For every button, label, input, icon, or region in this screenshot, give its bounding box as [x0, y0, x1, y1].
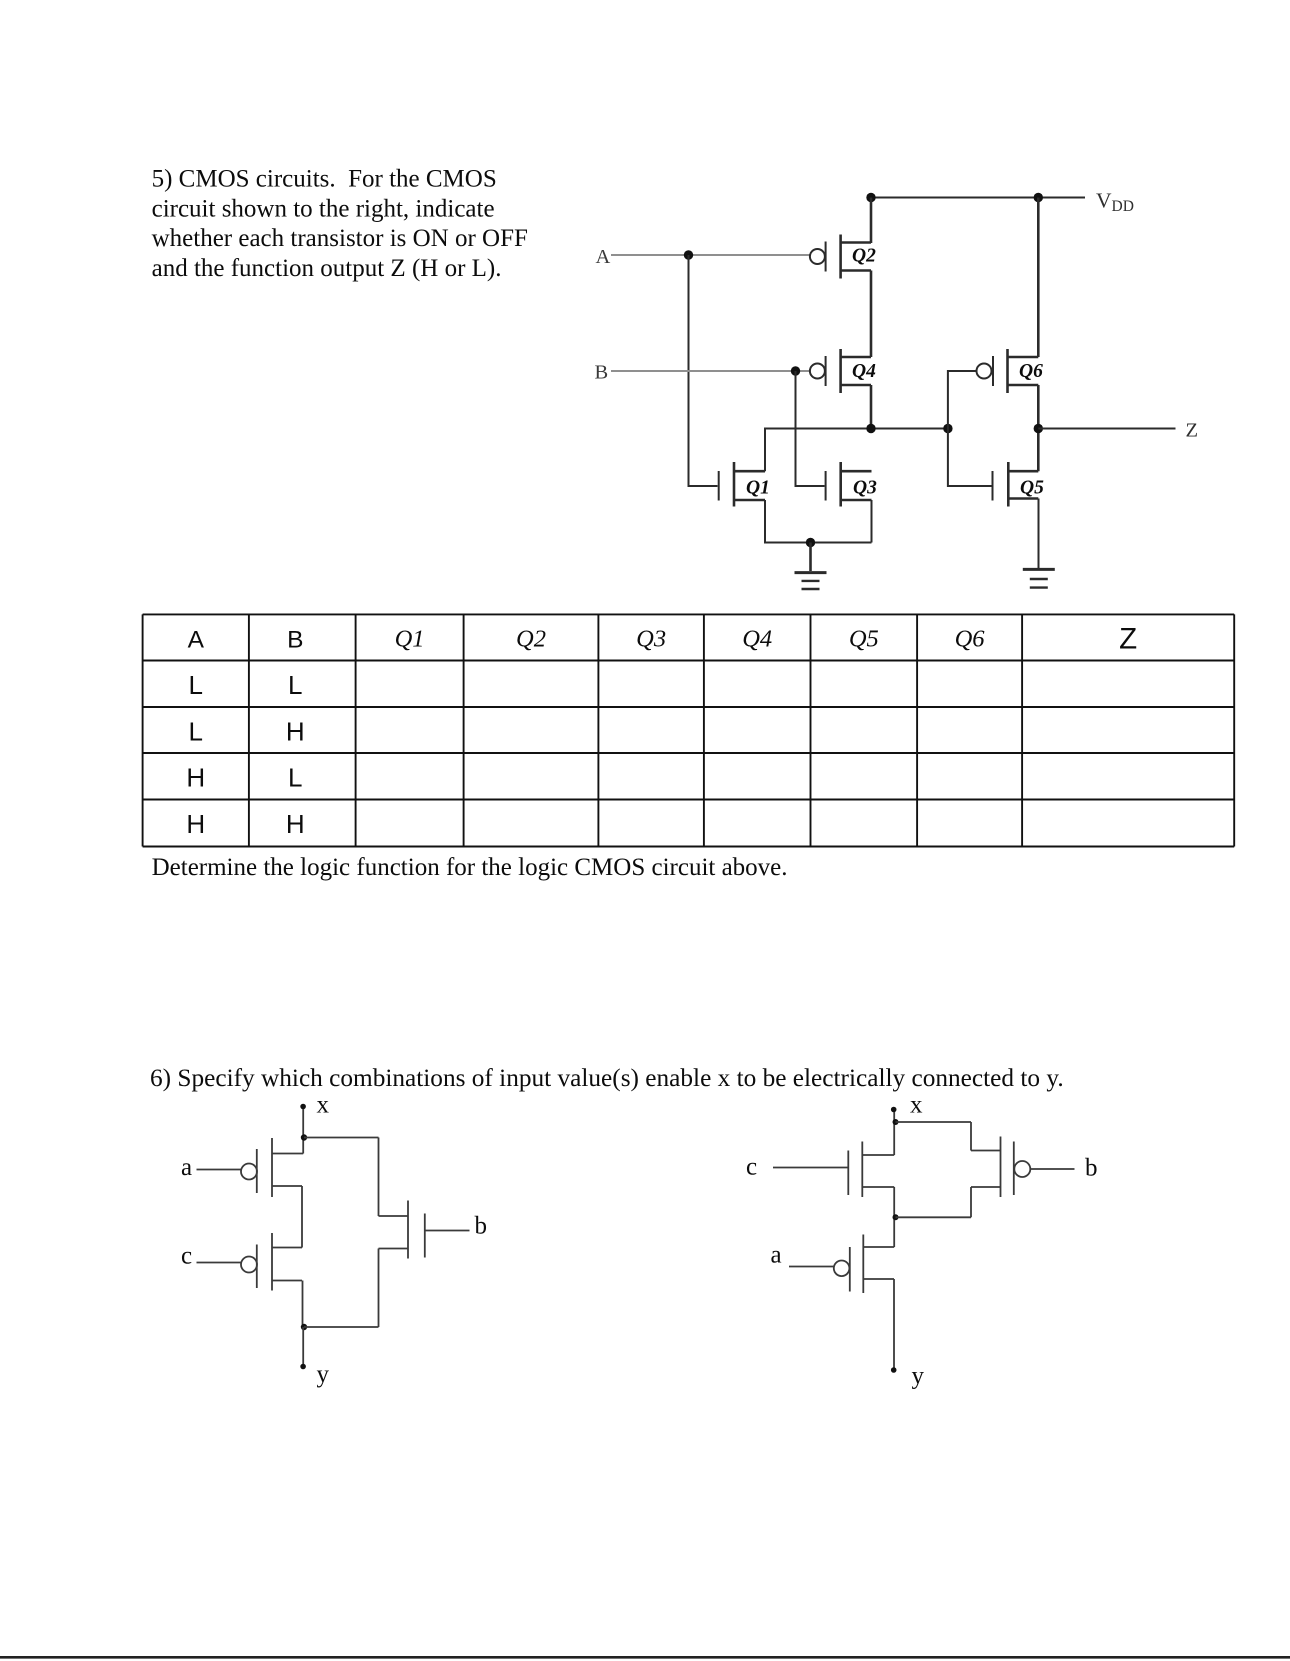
svg-text:B: B: [595, 361, 609, 383]
output node dot: [866, 424, 875, 433]
wire B to Q3 gate: [796, 371, 825, 486]
left circuit: node y terminal dot: [300, 1364, 306, 1370]
left circuit: transistor c (PMOS): [197, 1233, 303, 1291]
truth table grid: [143, 614, 1235, 846]
wire node to Q5 gate: [948, 429, 992, 487]
svg-text:Determine the logic function f: Determine the logic function for the log…: [152, 854, 788, 881]
svg-text:H: H: [286, 716, 305, 746]
left circuit: wire c source down: [302, 1281, 304, 1328]
svg-text:c: c: [746, 1154, 757, 1181]
svg-text:Z: Z: [1119, 623, 1137, 656]
left circuit: right branch upper wire: [378, 1138, 380, 1217]
svg-text:whether each transistor is ON: whether each transistor is ON or OFF: [152, 225, 528, 252]
svg-text:x: x: [910, 1092, 923, 1119]
left circuit: right branch lower wire: [378, 1249, 380, 1328]
right circuit: wire to y: [893, 1279, 895, 1370]
left circuit: transistor b (NMOS): [379, 1201, 470, 1259]
svg-text:Q5: Q5: [1020, 478, 1044, 499]
left circuit: transistor a (PMOS): [197, 1138, 304, 1197]
wire Q3 source down: [871, 500, 873, 543]
svg-text:L: L: [189, 716, 203, 746]
wire Q4 drain to output node: [870, 385, 873, 429]
wire node to Q6 gate: [948, 371, 977, 429]
node A junction dot: [684, 250, 693, 259]
VDD junction dot right: [1034, 193, 1043, 202]
ground symbol right: [1023, 569, 1055, 587]
svg-text:VDD: VDD: [1096, 189, 1134, 216]
right circuit: mid wire to right branch: [896, 1216, 972, 1218]
left circuit: wire between transistor a and c: [301, 1186, 303, 1248]
wire input B: [611, 370, 810, 372]
wire Q2 drain to Q4 source: [870, 271, 873, 358]
VDD junction dot left: [866, 193, 875, 202]
svg-text:A: A: [188, 626, 205, 653]
wire VDD to Q2 source: [870, 198, 873, 244]
right circuit: top wire to right branch: [896, 1121, 972, 1123]
VDD rail wire: [871, 197, 1085, 199]
svg-text:Q2: Q2: [852, 246, 876, 267]
wire Q1 drain / first stage output: [765, 429, 948, 472]
svg-text:c: c: [181, 1243, 192, 1270]
svg-text:Q1: Q1: [395, 625, 425, 652]
transistor Q5 (NMOS): [993, 462, 1045, 507]
right circuit: transistor b (PMOS): [971, 1137, 1075, 1198]
svg-text:and the function output Z (H o: and the function output Z (H or L).: [152, 255, 502, 282]
ground node dot: [806, 538, 815, 547]
right circuit: node x terminal dot: [891, 1107, 897, 1113]
left circuit: bottom wire to right branch: [304, 1326, 379, 1328]
svg-text:6) Specify which combinations: 6) Specify which combinations of input v…: [150, 1064, 1064, 1092]
table data rows A/B values: [186, 670, 304, 839]
svg-text:L: L: [189, 670, 203, 700]
svg-text:Q6: Q6: [1019, 361, 1043, 382]
svg-text:H: H: [286, 809, 305, 839]
left circuit: wire to y: [302, 1327, 304, 1366]
svg-text:A: A: [596, 246, 611, 268]
transistor Q2 (PMOS): [810, 235, 876, 279]
wire Q6 drain to Z node: [1037, 385, 1040, 471]
svg-text:Q4: Q4: [852, 361, 876, 382]
svg-text:Q1: Q1: [746, 478, 770, 499]
svg-text:y: y: [912, 1363, 925, 1390]
svg-text:L: L: [288, 763, 302, 793]
svg-text:L: L: [288, 670, 302, 700]
left circuit: bottom junction dot: [301, 1324, 307, 1330]
svg-text:a: a: [181, 1154, 192, 1181]
ground symbol left: [795, 543, 827, 590]
right circuit: node y terminal dot: [891, 1367, 897, 1373]
right circuit: transistor c (NMOS): [773, 1142, 894, 1198]
right circuit: right branch upper wire: [970, 1122, 972, 1151]
svg-text:H: H: [186, 809, 205, 839]
right circuit: mid junction dot: [893, 1214, 899, 1220]
svg-text:5) CMOS circuits. For the CMO: 5) CMOS circuits. For the CMOS: [152, 166, 497, 193]
svg-text:Q2: Q2: [516, 625, 546, 652]
right circuit: right branch lower wire: [970, 1187, 972, 1217]
wire Q5 source to ground: [1038, 499, 1040, 569]
svg-text:circuit shown to the right, in: circuit shown to the right, indicate: [152, 195, 495, 222]
transistor Q4 (PMOS): [810, 349, 876, 393]
svg-text:Q4: Q4: [742, 625, 772, 652]
question 5 text: [152, 166, 528, 282]
left circuit: top junction dot: [301, 1134, 307, 1140]
wire A to Q1 gate: [689, 255, 718, 486]
svg-text:a: a: [771, 1242, 782, 1269]
left circuit: node x terminal dot: [300, 1104, 306, 1110]
svg-text:H: H: [186, 763, 205, 793]
svg-text:x: x: [317, 1092, 330, 1119]
left circuit: wire x down: [302, 1109, 304, 1154]
transistor Q1 (NMOS): [719, 462, 770, 507]
svg-text:y: y: [317, 1361, 330, 1388]
Z node dot: [1034, 424, 1043, 433]
wire VDD to Q6 source: [1037, 198, 1040, 358]
svg-text:Q6: Q6: [955, 625, 986, 652]
right circuit: transistor a (PMOS): [789, 1235, 894, 1294]
svg-text:Z: Z: [1186, 420, 1199, 442]
svg-text:b: b: [475, 1213, 488, 1240]
node B junction dot: [791, 366, 800, 375]
wire Z output: [1038, 428, 1175, 430]
wire Q1 source to ground rail: [765, 500, 872, 543]
svg-text:B: B: [287, 626, 303, 653]
svg-text:Q3: Q3: [853, 478, 877, 499]
transistor Q3 (NMOS): [826, 462, 877, 507]
inverter input node dot: [943, 424, 952, 433]
bottom horizontal rule: [0, 1656, 1290, 1659]
svg-text:Q3: Q3: [636, 625, 666, 652]
right circuit: wire x down: [893, 1112, 895, 1155]
svg-text:Q5: Q5: [849, 625, 879, 652]
transistor Q6 (PMOS): [977, 349, 1044, 393]
left circuit: top wire to right branch: [304, 1137, 379, 1139]
wire input A: [611, 254, 810, 256]
svg-text:b: b: [1085, 1155, 1098, 1182]
right circuit: wire c source to mid node: [893, 1187, 895, 1247]
right circuit: top junction dot: [893, 1119, 899, 1125]
table header row: [188, 623, 1138, 656]
